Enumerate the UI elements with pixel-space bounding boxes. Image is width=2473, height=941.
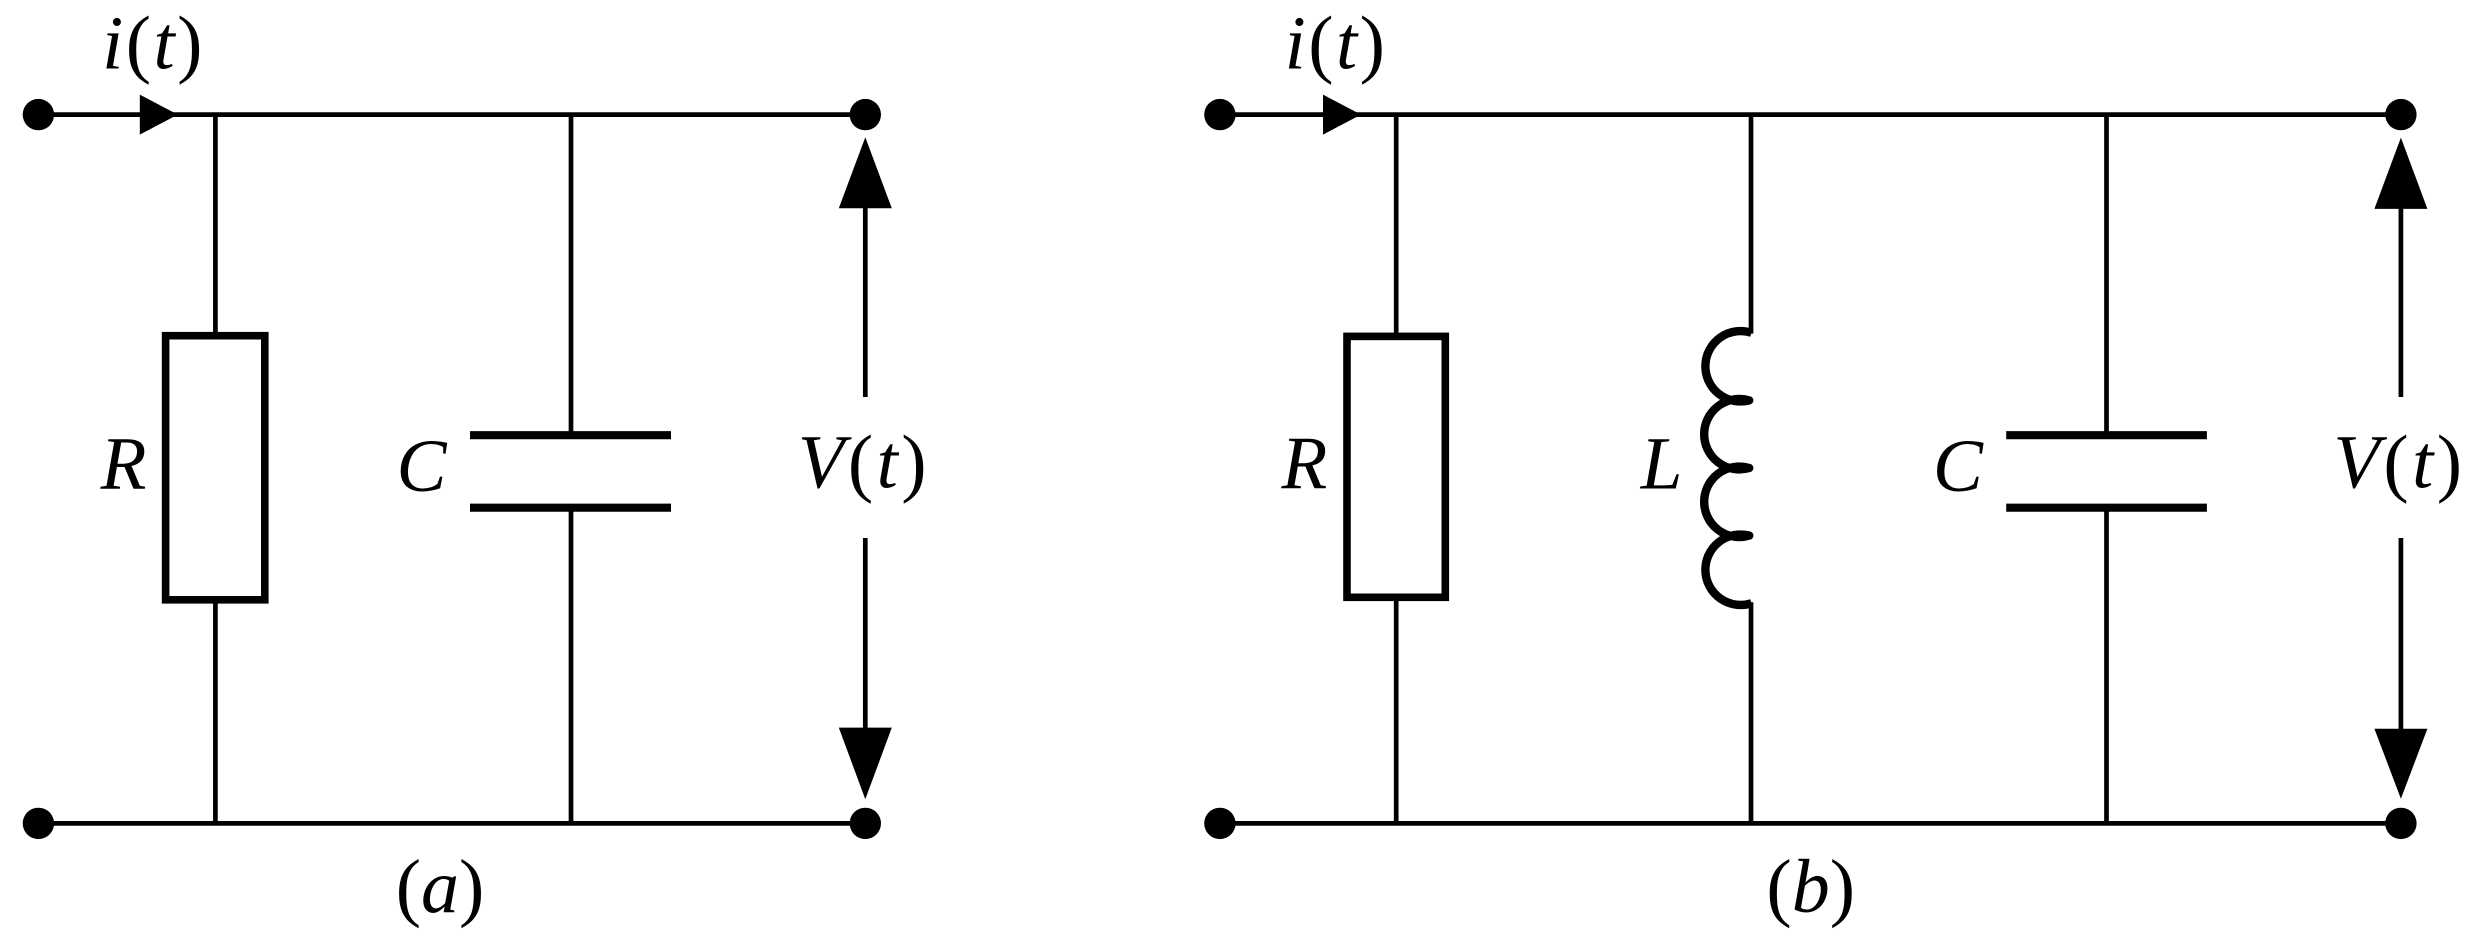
wire: capacitor branch top lead (a) [569,115,574,436]
voltage arrow up (b): shaft [2399,206,2404,397]
wire: capacitor branch bottom lead (a) [569,508,574,824]
svg-text:(b): (b) [1766,845,1855,929]
voltage arrow down (a): arrowhead [839,728,892,800]
wire: inductor branch bottom lead (b) [1749,602,1754,823]
capacitor C top plate (b) [2006,431,2207,439]
node: bottom-right terminal of circuit (b) [2385,808,2416,839]
node: bottom-left terminal of circuit (a) [23,808,54,839]
capacitor C bottom plate (b) [2006,504,2207,512]
wire: top bus of circuit (b) [1220,112,2401,117]
voltage arrow up (a): arrowhead [839,137,892,208]
svg-text:L: L [1640,423,1683,506]
voltage arrow up (a): shaft [863,206,868,397]
node: top-right terminal of circuit (b) [2385,99,2416,130]
svg-text:R: R [1280,422,1327,505]
svg-text:i(t): i(t) [102,2,205,86]
wire: resistor branch top lead (a) [213,115,218,335]
resistor R of circuit (b) [1347,336,1445,597]
current direction arrowhead on top bus (a) [140,95,178,135]
wire: bottom bus of circuit (b) [1220,821,2401,826]
svg-text:(a): (a) [396,845,485,929]
svg-text:C: C [396,425,447,508]
node: top-left terminal of circuit (a) [23,99,54,130]
capacitor C bottom plate (a) [470,504,671,512]
voltage arrow down (b): shaft [2399,538,2404,730]
wire: resistor branch bottom lead (a) [213,601,218,824]
svg-text:i(t): i(t) [1285,2,1388,86]
node: top-left terminal of circuit (b) [1204,99,1235,130]
node: bottom-right terminal of circuit (a) [850,808,881,839]
svg-text:V(t): V(t) [798,421,930,505]
resistor R of circuit (a) [166,336,265,600]
svg-text:V(t): V(t) [2333,421,2465,505]
current direction arrowhead on top bus (b) [1323,95,1361,135]
voltage arrow up (b): arrowhead [2374,138,2427,209]
inductor L of circuit (b) [1704,331,1751,605]
node: top-right terminal of circuit (a) [850,99,881,130]
wire: resistor branch bottom lead (b) [1394,598,1399,823]
voltage arrow down (b): arrowhead [2374,729,2427,799]
svg-text:C: C [1933,425,1984,508]
wire: top bus of circuit (a) [38,112,865,117]
svg-text:R: R [100,423,147,506]
node: bottom-left terminal of circuit (b) [1204,808,1235,839]
capacitor C top plate (a) [470,431,671,439]
wire: resistor branch top lead (b) [1394,115,1399,335]
wire: capacitor branch bottom lead (b) [2104,508,2109,824]
wire: capacitor branch top lead (b) [2104,115,2109,436]
voltage arrow down (a): shaft [863,538,868,730]
wire: bottom bus of circuit (a) [38,821,865,826]
wire: inductor branch top lead (b) [1749,115,1754,334]
